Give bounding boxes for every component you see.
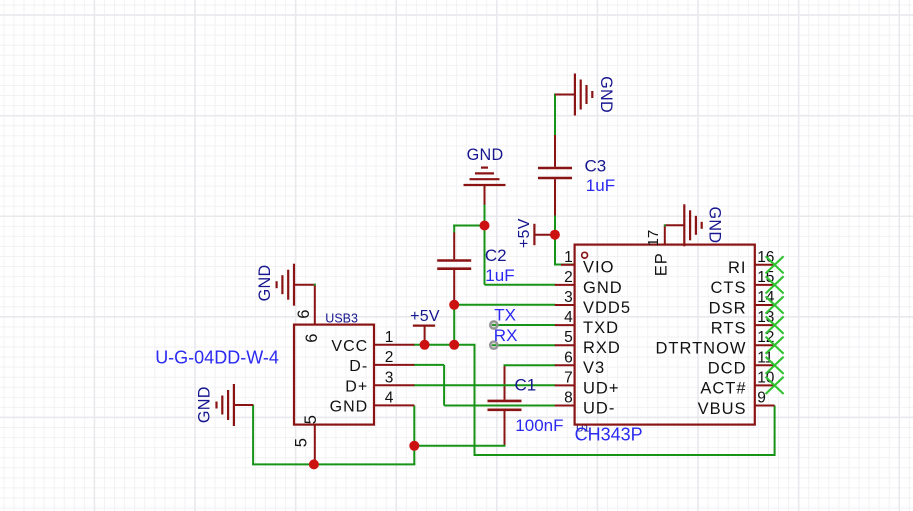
pin 12 DTRTNOW of CH343P [755, 344, 775, 346]
no-connect X on pin 10 [766, 377, 784, 394]
capacitor C1 100nF body [504, 366, 506, 400]
IC U1 CH343P body [575, 245, 755, 425]
pin 9 VBUS of CH343P [755, 405, 775, 407]
pin 15 CTS of CH343P [755, 284, 775, 286]
junction node USB pin5 / bottom GND run [309, 459, 319, 469]
wire D- leg down [443, 365, 445, 406]
no-connect X on pin 15 [766, 276, 784, 293]
svg-text:RX: RX [494, 326, 518, 345]
svg-text:GND: GND [196, 386, 214, 423]
pin 4 TXD of CH343P [555, 324, 575, 326]
wire VDD5 row from C2 bottom node to CH343P pin 3 [454, 304, 555, 306]
svg-text:4: 4 [564, 309, 573, 326]
wire GND branch to C1 bottom [414, 445, 505, 447]
no-connect X on pin 11 [766, 357, 784, 374]
svg-text:DSR: DSR [709, 299, 747, 317]
wire TX to TXD pin 4 [494, 324, 556, 326]
svg-text:RI: RI [728, 259, 747, 277]
pin 5 RXD of CH343P [555, 344, 575, 346]
wire D+ red segment from USB pin3 [374, 384, 414, 386]
power symbol +5V at VIO (rotated) [533, 224, 535, 245]
wire D+ from USB pin3 to CH343P pin 7 [413, 384, 555, 386]
svg-text:+5V: +5V [516, 218, 533, 248]
svg-text:GND: GND [330, 399, 369, 416]
svg-text:+5V: +5V [410, 308, 440, 325]
wire EP to GND symbol [665, 224, 685, 226]
pin 3 VDD5 of CH343P [555, 304, 575, 306]
svg-text:5: 5 [292, 438, 310, 447]
pin 14 DSR of CH343P [755, 304, 775, 306]
svg-text:GND: GND [256, 264, 274, 301]
junction node +5V / C3 / VIO [550, 230, 560, 240]
svg-text:1uF: 1uF [485, 266, 514, 285]
power symbol GND lower-left [233, 384, 235, 426]
svg-text:2: 2 [385, 349, 394, 366]
svg-text:CTS: CTS [711, 279, 747, 297]
svg-text:VCC: VCC [331, 338, 368, 355]
svg-text:VBUS: VBUS [698, 400, 747, 418]
capacitor C3 1uF body [554, 135, 556, 167]
junction node C2 leg / VCC [449, 340, 459, 350]
wire GND net from upper GND symbol down to node [484, 204, 486, 226]
svg-text:1uF: 1uF [586, 176, 615, 195]
wire VBUS bottom run [474, 454, 775, 456]
svg-text:TXD: TXD [583, 319, 619, 337]
no-connect X on pin 14 [766, 296, 784, 313]
pin 5 of USB3 (bottom shield pin) [314, 425, 316, 465]
svg-text:6: 6 [295, 310, 313, 319]
svg-text:2: 2 [564, 269, 573, 286]
junction node GND / C2 top [480, 221, 490, 231]
pin 11 DCD of CH343P [755, 364, 775, 366]
wire GND bottom run [252, 463, 415, 465]
svg-text:C1: C1 [515, 376, 537, 395]
svg-text:8: 8 [564, 390, 573, 407]
wire GND node down to GND pin2 row [484, 226, 486, 285]
wire GND row into CH343P pin 2 [485, 284, 556, 286]
svg-text:3: 3 [564, 289, 573, 306]
wire C3 bottom to +5V node and VIO pin 1 [554, 216, 556, 265]
wire +5V leg between VDD5 node and VCC node [453, 305, 455, 345]
wire VBUS leg up to CH343P pin 9 [774, 406, 776, 457]
svg-text:GND: GND [706, 206, 724, 243]
wire GND red segment from USB pin4 [374, 404, 414, 406]
net port RX [490, 342, 497, 349]
svg-text:CH343P: CH343P [575, 424, 643, 444]
wire +5V long leg down to VBUS run [474, 345, 476, 455]
svg-text:1: 1 [564, 249, 573, 266]
pin 10 ACT# of CH343P [755, 384, 775, 386]
svg-text:C3: C3 [585, 157, 607, 176]
svg-text:7: 7 [564, 369, 573, 386]
svg-text:DCD: DCD [708, 360, 747, 378]
pin 1 VIO of CH343P [561, 264, 575, 266]
svg-text:17: 17 [645, 230, 662, 247]
pin 8 UD- of CH343P [555, 405, 575, 407]
pin 7 UD+ of CH343P [555, 384, 575, 386]
svg-text:100nF: 100nF [515, 416, 563, 435]
power symbol GND at EP pin [683, 204, 685, 246]
net port TX [490, 321, 497, 328]
capacitor C2 1uF body [453, 232, 455, 259]
svg-text:V3: V3 [583, 359, 605, 377]
wire D- red segment from USB pin2 [374, 364, 414, 366]
svg-text:U-G-04DD-W-4: U-G-04DD-W-4 [155, 348, 279, 368]
svg-text:3: 3 [385, 369, 394, 386]
wire V3 row from C1 top to CH343P pin 6 [504, 364, 556, 366]
svg-text:5: 5 [302, 415, 320, 424]
pin 17 EP of CH343P [664, 225, 666, 244]
svg-text:ACT#: ACT# [700, 380, 746, 398]
svg-text:EP: EP [653, 252, 671, 276]
svg-text:UD-: UD- [583, 399, 615, 417]
svg-text:GND: GND [583, 279, 623, 297]
pin 13 RTS of CH343P [755, 324, 775, 326]
pin 2 GND of CH343P [555, 284, 575, 286]
pin 16 RI of CH343P [755, 264, 775, 266]
svg-text:RXD: RXD [583, 339, 621, 357]
svg-text:9: 9 [757, 390, 766, 407]
connector USB3 body [294, 325, 374, 425]
junction node C2 bottom / VDD5 [449, 300, 459, 310]
svg-text:GND: GND [467, 146, 504, 164]
power symbol +5V at USB VCC [413, 325, 435, 327]
svg-text:4: 4 [385, 389, 394, 406]
no-connect X on pin 12 [766, 337, 784, 354]
junction node USB GND leg / C1 branch [409, 441, 419, 451]
wire GND leg from lower-left GND symbol [252, 405, 254, 465]
svg-text:D+: D+ [345, 379, 368, 396]
power symbol GND above C2 [464, 184, 506, 186]
power symbol GND above C3 [574, 74, 576, 116]
svg-text:VDD5: VDD5 [583, 299, 631, 317]
junction node +5V stem / VCC [420, 340, 430, 350]
svg-text:D-: D- [349, 358, 368, 375]
svg-text:6: 6 [564, 349, 573, 366]
wire VCC red segment from USB pin1 [374, 344, 414, 346]
svg-text:6: 6 [303, 334, 321, 343]
pin 1 indicator dot of CH343P [582, 252, 588, 258]
pin 6 of USB3 (top shield pin) [314, 285, 316, 325]
svg-text:UD+: UD+ [583, 379, 619, 397]
wire VCC row from USB pin1 stub to +5V corner [413, 344, 475, 346]
svg-text:RTS: RTS [711, 319, 747, 337]
wire RX to RXD pin 5 [494, 344, 556, 346]
svg-text:C2: C2 [485, 246, 507, 265]
svg-text:GND: GND [597, 76, 615, 113]
wire D- from USB pin2 to corner [413, 364, 444, 366]
wire GND node to C2 top corner [453, 225, 484, 227]
svg-text:DTRTNOW: DTRTNOW [655, 340, 746, 358]
svg-text:VIO: VIO [583, 259, 614, 277]
no-connect X on pin 16 [766, 256, 784, 273]
wire GND leg from USB pin4 down [413, 405, 415, 464]
no-connect X on pin 13 [766, 317, 784, 334]
svg-text:1: 1 [385, 329, 394, 346]
svg-text:USB3: USB3 [325, 312, 358, 326]
wire C3 top to GND symbol corner [554, 94, 556, 136]
wire UD- row to CH343P pin 8 [444, 405, 555, 407]
svg-text:5: 5 [564, 329, 573, 346]
pin 6 V3 of CH343P [555, 364, 575, 366]
power symbol GND upper-left (USB shield) [293, 264, 295, 306]
svg-text:TX: TX [494, 306, 516, 325]
